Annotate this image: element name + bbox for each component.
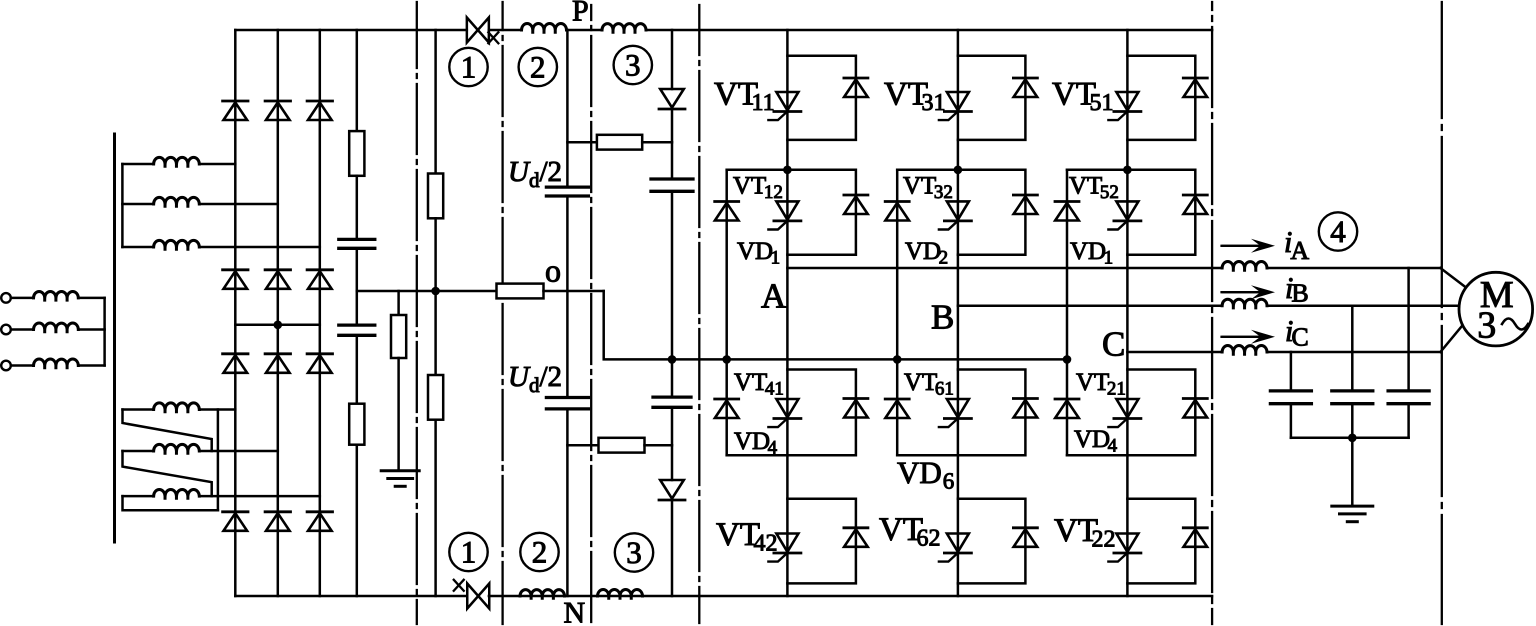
zigzag link winding 2 to 3	[123, 451, 212, 496]
wire wye winding 1 to bridge leg	[199, 163, 235, 166]
clamp diode VD1	[715, 202, 739, 221]
label VD4 phase A	[734, 428, 778, 459]
thyristor VT22	[1108, 534, 1141, 562]
clamp branch lower link VD4	[727, 454, 788, 457]
wire zigzag winding 1 left	[123, 408, 154, 411]
junction neutral rail phase B	[893, 355, 902, 364]
thyristor VT41	[768, 399, 801, 427]
upper bridge top diode 1	[223, 101, 248, 120]
inverter leg phase A	[786, 30, 789, 596]
arrow iB	[1222, 285, 1275, 299]
label o	[545, 253, 561, 289]
fast switch bottom (1)	[454, 580, 490, 609]
source terminal 3	[1, 361, 11, 371]
svg-text:B: B	[931, 298, 954, 337]
label VT62	[879, 512, 941, 552]
snubber loop VT11	[787, 56, 856, 140]
snubber loop VT51	[1127, 56, 1195, 140]
wye secondary winding 2	[154, 197, 200, 206]
freewheel diode of VT62	[1013, 528, 1037, 547]
svg-text:3: 3	[1477, 305, 1496, 347]
snubber loop VT22	[1127, 499, 1195, 584]
zigzag secondary winding 1	[154, 403, 200, 412]
lower bridge top diode 1	[223, 354, 248, 373]
wire o rail right	[544, 290, 604, 293]
snubber loop VT61	[958, 370, 1026, 456]
primary winding 2	[34, 323, 79, 332]
filter inductor bottom (2)	[520, 590, 565, 599]
zigzag link winding 1 to 2	[123, 410, 212, 452]
thyristor VT21	[1108, 399, 1141, 427]
wire snubber resistor bottom link	[567, 444, 598, 447]
svg-text:C: C	[1102, 325, 1125, 364]
junction neutral rail phase C	[1063, 355, 1072, 364]
wire chain1 bottom	[356, 445, 359, 596]
svg-text:1: 1	[461, 535, 477, 570]
svg-text:o: o	[545, 253, 561, 289]
transformer core bar	[113, 134, 116, 542]
snubber loop VT32	[897, 170, 1025, 255]
source terminal 2	[1, 325, 11, 335]
junction o rail chain3	[431, 287, 440, 296]
freewheel diode of VT31	[1013, 78, 1037, 97]
chain line section boundary 1	[416, 2, 418, 624]
filter inductor bottom (3)	[598, 590, 643, 599]
freewheel diode of VT22	[1183, 528, 1207, 547]
wire snubber chain 4	[671, 407, 674, 480]
wire phase A motor lead	[1440, 268, 1467, 289]
thyristor VT61	[939, 399, 972, 427]
chain line section boundary 2	[501, 2, 503, 624]
wire chain3 bottom	[434, 420, 437, 596]
clamp diode VD1	[1055, 202, 1079, 221]
output inductor phase C	[1222, 346, 1267, 355]
label circled 4	[1319, 212, 1357, 250]
resistor snubber bottom	[599, 438, 645, 453]
wire snubber chain 2	[671, 109, 674, 179]
clamp branch upper VD2	[896, 170, 899, 360]
snubber loop VT52	[1067, 170, 1195, 255]
wire bridge series junction	[235, 324, 319, 327]
node1 phase C	[1123, 166, 1132, 175]
label P	[572, 0, 589, 28]
thyristor VT12	[768, 201, 801, 229]
wire wye winding 2 left	[122, 203, 153, 206]
upper bridge bottom diode 2	[265, 270, 290, 289]
label VT51	[1052, 77, 1114, 117]
label Ud/2 lower	[508, 361, 562, 397]
label circled 3 top	[614, 46, 652, 84]
junction filter cap bus	[1348, 434, 1357, 443]
wire source 1 to primary winding	[11, 297, 34, 300]
wire motor ground stem	[1351, 438, 1354, 506]
resistor snubber top	[597, 135, 642, 150]
wire chain1 to o rail	[356, 248, 359, 325]
zigzag secondary winding 3	[154, 490, 200, 499]
resistor chain3 lower	[428, 375, 443, 420]
thyristor VT11	[768, 92, 801, 120]
wire Ud chain mid	[566, 196, 569, 398]
snubber loop VT41	[787, 370, 856, 456]
filter capacitor 2	[1332, 391, 1373, 404]
wire primary winding 1 to star bus	[78, 297, 104, 300]
capacitor Ud/2 lower	[546, 398, 588, 409]
wire filter cap 1 top	[1290, 352, 1293, 391]
lower bridge bottom diode 3	[307, 512, 332, 531]
wire zigzag winding 1 to bridge leg	[199, 408, 235, 411]
clamp branch lower link VD4	[1067, 454, 1127, 457]
wire top DC bus 2	[489, 29, 522, 32]
wire wye winding 2 to bridge leg	[199, 203, 277, 206]
zigzag star bus	[217, 410, 220, 511]
thyristor VT31	[939, 92, 972, 120]
freewheel diode of VT61	[1013, 399, 1037, 418]
thyristor VT51	[1108, 92, 1141, 120]
freewheel diode of VT52	[1183, 195, 1207, 214]
label Ud/2 upper	[508, 156, 562, 192]
filter capacitor 1	[1270, 391, 1311, 404]
snubber loop VT62	[958, 499, 1026, 584]
diode snubber bottom	[659, 480, 685, 500]
label circled 2 top	[519, 48, 557, 86]
snubber loop VT31	[958, 56, 1026, 140]
clamp branch lower VD4	[1066, 359, 1069, 455]
primary star bus	[103, 298, 106, 366]
svg-text:1: 1	[461, 50, 477, 85]
rectifier leg 1	[234, 30, 237, 596]
upper bridge bottom diode 1	[223, 270, 248, 289]
wire wye winding 3 to bridge leg	[199, 246, 319, 249]
upper bridge top diode 2	[265, 101, 290, 120]
node1 phase A	[783, 166, 792, 175]
junction neutral rail phase A	[722, 355, 731, 364]
label VT52	[1069, 173, 1119, 204]
thyristor VT42	[768, 534, 801, 562]
wire zigzag winding 3 to bridge leg	[199, 495, 319, 498]
fast switch top (1)	[467, 18, 499, 44]
wire filter cap 2 top	[1351, 306, 1354, 391]
freewheel diode of VT42	[844, 528, 868, 547]
svg-text:3: 3	[625, 48, 641, 83]
resistor o rail	[497, 284, 544, 299]
wire snubber chain top	[671, 30, 674, 89]
wire filter cap bus	[1291, 437, 1409, 440]
label N	[564, 597, 586, 626]
svg-text:A: A	[761, 277, 787, 316]
label VD2 phase B	[905, 238, 948, 269]
clamp branch upper VD1	[725, 170, 728, 360]
resistor grounding	[391, 315, 406, 358]
filter inductor top (2)	[522, 24, 567, 33]
wire zigzag winding 2 to bridge leg	[199, 450, 277, 453]
clamp diode VD2	[885, 202, 909, 221]
label circled 1 top	[449, 48, 487, 86]
label node C	[1102, 325, 1125, 364]
filter capacitor 3	[1388, 391, 1429, 404]
wire primary winding 2 to star bus	[78, 328, 104, 331]
capacitor snubber top	[651, 179, 693, 191]
output inductor phase B	[1222, 299, 1267, 308]
svg-text:2: 2	[530, 50, 546, 85]
label VD4 phase C	[1074, 426, 1118, 457]
ground rectifier side	[381, 471, 419, 487]
label circled 1 bottom	[449, 533, 487, 571]
wire phase C motor lead	[1440, 319, 1467, 352]
wire chain1 mid1	[356, 176, 359, 240]
wire bottom DC bus 2	[489, 595, 1212, 598]
wire o rail drop to neutral rail	[604, 291, 1067, 359]
thyristor VT32	[939, 201, 972, 229]
lower bridge top diode 2	[265, 354, 290, 373]
label VD1 phase C	[1070, 238, 1113, 269]
wire Ud chain top	[566, 30, 569, 187]
wire Ud chain bottom	[566, 409, 569, 596]
wire phase B output	[958, 304, 1222, 307]
label iB	[1285, 272, 1309, 308]
label iC	[1285, 315, 1309, 352]
wire top DC bus 4	[646, 29, 1212, 32]
label VD1 phase A	[737, 238, 780, 269]
freewheel diode of VT12	[844, 195, 868, 214]
wire phase B to motor	[1267, 304, 1460, 307]
clamp branch upper VD1	[1066, 170, 1069, 360]
freewheel diode of VT41	[844, 399, 868, 418]
wire phase A to motor	[1267, 267, 1440, 270]
filter inductor top (3)	[602, 24, 646, 33]
wire wye winding 3 left	[122, 246, 153, 249]
wire chain3 mid	[434, 218, 437, 375]
wye secondary winding 1	[154, 157, 200, 166]
wire top DC bus 3	[567, 29, 603, 32]
label VT61	[904, 369, 954, 400]
wire zigzag winding 3 left	[123, 495, 154, 498]
wire phase C output	[1127, 351, 1222, 354]
freewheel diode of VT51	[1183, 78, 1207, 97]
source terminal 1	[1, 293, 11, 303]
wire bottom DC bus	[235, 595, 466, 598]
primary winding 3	[34, 359, 79, 368]
rectifier leg 3	[319, 30, 322, 596]
chain line P-N axis	[590, 5, 592, 623]
arrow iC	[1222, 330, 1275, 344]
wire zigzag winding 2 left	[123, 450, 154, 453]
junction bridge midpoint	[274, 321, 283, 330]
wire top DC bus	[235, 29, 466, 32]
rectifier leg 2	[277, 30, 280, 596]
svg-text:P: P	[572, 0, 589, 28]
label circled 3 bottom	[615, 533, 653, 571]
lower bridge bottom diode 1	[223, 512, 248, 531]
label iA	[1284, 226, 1309, 265]
wire source 3 to primary winding	[11, 364, 34, 367]
zigzag secondary winding 2	[154, 444, 200, 453]
capacitor snubber bottom	[653, 397, 691, 407]
clamp branch lower VD4	[725, 359, 728, 455]
wire wye winding 1 left	[122, 163, 153, 166]
wire snubber resistor top link	[567, 141, 597, 144]
label node B	[931, 298, 954, 337]
wye secondary star bus	[121, 164, 124, 247]
label VD6 phase B	[897, 455, 954, 494]
freewheel diode of VT32	[1013, 195, 1037, 214]
wire filter cap 3 top	[1407, 268, 1410, 391]
thyristor VT62	[939, 534, 972, 562]
resistor chain3 upper	[428, 174, 443, 219]
capacitor chain1 upper	[339, 239, 375, 248]
output inductor phase A	[1222, 262, 1267, 271]
clamp diode VD4	[1055, 399, 1079, 418]
upper bridge top diode 3	[307, 101, 332, 120]
wire filter cap 1 bottom	[1290, 404, 1293, 438]
clamp branch lower VD6	[896, 359, 899, 455]
snubber loop VT42	[787, 499, 856, 584]
label circled 2 bottom	[520, 533, 558, 571]
wire chain1 top	[356, 30, 359, 131]
label node A	[761, 277, 787, 316]
capacitor chain1 lower	[339, 325, 375, 335]
wire o rail left	[357, 290, 497, 293]
freewheel diode of VT21	[1183, 399, 1207, 418]
label VT41	[734, 369, 784, 400]
wire grounding stem	[397, 358, 400, 471]
svg-text:3: 3	[626, 535, 642, 570]
label VT22	[1054, 513, 1116, 553]
node1 phase B	[954, 166, 963, 175]
wire filter cap 3 bottom	[1407, 404, 1410, 438]
chain line section boundary 3	[698, 5, 700, 623]
thyristor VT52	[1108, 201, 1141, 229]
wire snubber chain 3	[671, 191, 674, 397]
label VT21	[1076, 369, 1126, 400]
inverter leg phase B	[957, 30, 960, 596]
wire primary winding 3 to star bus	[78, 364, 104, 367]
primary winding 1	[34, 291, 79, 300]
wire chain3 top	[434, 30, 437, 174]
label VT32	[903, 173, 953, 204]
wire phase A output	[787, 267, 1222, 270]
chain line section boundary 4	[1211, 2, 1213, 624]
wire chain1 mid2	[356, 335, 359, 403]
zigzag return link	[123, 496, 218, 510]
wire snubber resistor top link2	[642, 141, 672, 144]
chain line section boundary 5	[1441, 2, 1443, 624]
label VT31	[884, 77, 946, 117]
clamp diode VD6	[885, 399, 909, 418]
wire phase C to motor	[1267, 351, 1440, 354]
resistor chain1 lower	[349, 404, 364, 445]
label VT11	[714, 77, 775, 117]
diode snubber top	[659, 89, 685, 109]
motor M 3-phase	[1459, 272, 1533, 346]
label VT12	[733, 173, 783, 204]
label VT42	[716, 517, 778, 557]
clamp diode VD4	[715, 399, 739, 418]
svg-text:2: 2	[532, 535, 548, 570]
junction snubber neutral	[668, 355, 677, 364]
wye secondary winding 3	[154, 240, 200, 249]
freewheel diode of VT11	[844, 78, 868, 97]
clamp branch lower link VD6	[897, 454, 958, 457]
svg-text:4: 4	[1330, 214, 1346, 249]
svg-text:N: N	[564, 597, 586, 626]
ground motor side	[1332, 506, 1373, 522]
wire filter cap 2 bottom	[1351, 404, 1354, 438]
upper bridge bottom diode 3	[307, 270, 332, 289]
wire snubber resistor bottom link2	[645, 444, 673, 447]
snubber loop VT21	[1127, 370, 1195, 456]
arrow iA	[1222, 239, 1275, 253]
resistor chain1 upper	[349, 131, 364, 176]
snubber loop VT12	[727, 170, 856, 255]
wire source 2 to primary winding	[11, 328, 34, 331]
inverter leg phase C	[1126, 30, 1129, 596]
wire grounding tap	[397, 291, 400, 315]
wire snubber chain bottom	[671, 500, 674, 596]
lower bridge bottom diode 2	[265, 512, 290, 531]
lower bridge top diode 3	[307, 354, 332, 373]
capacitor Ud/2 upper	[546, 187, 588, 196]
